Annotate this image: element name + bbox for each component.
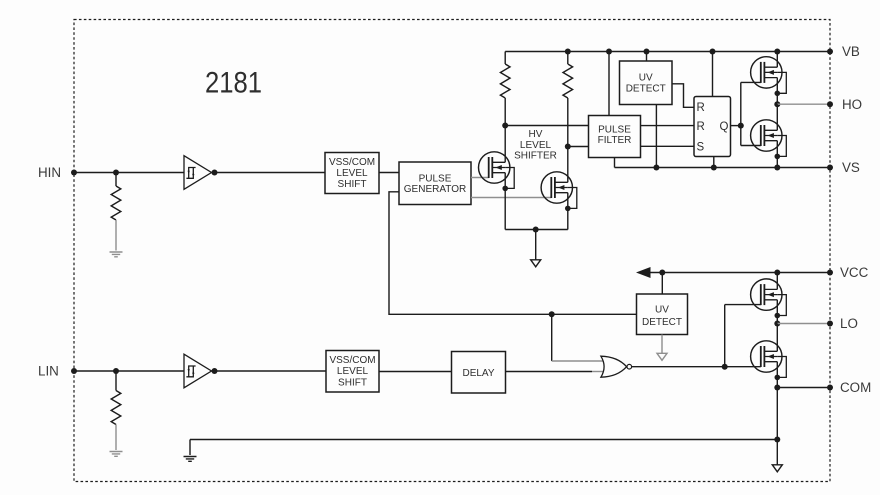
schmitt buffer LIN (184, 354, 212, 388)
svg-text:HO: HO (842, 97, 862, 112)
block VSS/COM LEVEL SHIFT (low side) (326, 351, 379, 393)
wire UV detect low to VSS arrow (661, 335, 663, 354)
block UV DETECT high side (620, 61, 673, 105)
wire latch Q output (731, 125, 741, 127)
node LO junction (774, 321, 780, 327)
node VCC pin dot (827, 270, 833, 276)
block VSS/COM LEVEL SHIFT (high side) (325, 153, 379, 194)
wire Q5 gate lead (725, 304, 761, 306)
wire net down to gate top input (551, 314, 553, 361)
transistor M2 level shift (541, 172, 577, 211)
node VB pin dot (827, 49, 833, 55)
wire from pulse generator down to low side (389, 192, 637, 314)
svg-text:VSS/COM: VSS/COM (329, 157, 375, 168)
svg-text:Q: Q (720, 121, 729, 133)
wire LO output (777, 323, 830, 325)
svg-text:LEVEL: LEVEL (337, 366, 369, 377)
ground under LIN resistor (110, 452, 123, 457)
wire VB tap to pulse filter (608, 52, 610, 116)
label HV LEVEL SHIFTER (514, 129, 557, 162)
wire M2 drain to pulse filter input S (568, 146, 589, 148)
wire COM output (777, 387, 830, 389)
wire resistor to ground (115, 220, 117, 251)
node HIN pin dot (71, 170, 77, 176)
wire Q5 source to LO (776, 300, 778, 324)
svg-text:DELAY: DELAY (462, 368, 494, 379)
wire resistor 2 to M2 drain (567, 98, 569, 182)
wire Q4 drain from HO (776, 104, 778, 130)
svg-text:DETECT: DETECT (642, 317, 682, 328)
svg-text:DETECT: DETECT (626, 83, 666, 94)
ground under HIN resistor (110, 252, 123, 257)
wire buffer out to level shift low (212, 370, 327, 372)
transistor Q3 HO high (751, 57, 787, 96)
resistor HIN pulldown (111, 186, 121, 220)
svg-text:S: S (697, 142, 705, 154)
wire Q6 drain from LO (776, 324, 778, 352)
wire VB stub to resistor 2 (567, 52, 569, 65)
gate NOR low side (601, 356, 632, 377)
svg-text:SHIFTER: SHIFTER (514, 151, 557, 162)
wire Q5 drain from VCC (776, 273, 778, 290)
wire VB rail (505, 51, 830, 53)
node LIN pin dot (71, 368, 77, 374)
svg-text:R: R (697, 102, 705, 114)
node bottom rail junction (774, 437, 780, 443)
node HO junction (774, 101, 780, 107)
block UV DETECT low side (637, 294, 688, 335)
latch R/S block (694, 97, 731, 157)
node LO pin dot (827, 321, 833, 327)
wire HIN input (74, 172, 184, 174)
wire VB stub to resistor 1 (504, 52, 506, 65)
node VB latch tap (710, 49, 716, 55)
wire pulse filter to latch R (641, 125, 695, 127)
wire VB tap to UV detect (646, 52, 648, 62)
transistor M1 level shift (479, 152, 515, 191)
node HO pin dot (827, 101, 833, 107)
node VCC UV tap junction (659, 270, 665, 276)
node buffer LIN output dot (212, 368, 218, 374)
node LIN junction (113, 368, 119, 374)
wire M2 source (567, 193, 569, 230)
node LO gate bus junction (722, 364, 728, 370)
wire M1 drain to pulse filter input R (505, 125, 588, 127)
transistor Q5 LO high (751, 279, 787, 318)
node Q4 source VS junction (774, 165, 780, 171)
wire Q6 source to COM and bottom rail (776, 362, 778, 440)
wire LO driver gate bus (724, 305, 726, 367)
wire buffer out to level shift (212, 172, 326, 174)
wire LIN input (74, 370, 184, 372)
svg-text:PULSE: PULSE (598, 124, 631, 135)
block DELAY (452, 352, 506, 394)
arrow VCC feed (filled) (636, 267, 651, 278)
node Q output junction (738, 123, 744, 129)
resistor level shift load 2 (563, 64, 573, 98)
node VB UV detect tap (644, 49, 650, 55)
node resistor 2 top junction (565, 49, 571, 55)
wire bottom rail to VSS ground (189, 440, 191, 456)
wire to COM arrow (535, 230, 537, 260)
wire LIN to pulldown resistor (115, 371, 117, 391)
svg-text:UV: UV (655, 305, 669, 316)
node low side net junction (549, 311, 555, 317)
node M2 drain junction (565, 144, 571, 150)
node HIN junction (113, 170, 119, 176)
schmitt buffer HIN (184, 156, 212, 190)
svg-text:2181: 2181 (205, 67, 262, 100)
block PULSE GENERATOR (399, 162, 471, 205)
wire HO output (777, 103, 830, 105)
node M1 drain junction (502, 123, 508, 129)
node Q3 drain VB junction (774, 49, 780, 55)
wire M1 source (504, 173, 506, 230)
wire pulse filter bottom to VS (614, 158, 616, 168)
wire level shift to pulse generator (379, 172, 399, 174)
svg-text:LIN: LIN (38, 364, 59, 379)
wire latch bottom to VS (713, 157, 715, 168)
block PULSE FILTER (589, 116, 641, 158)
svg-text:VB: VB (842, 44, 860, 59)
wire resistor 1 to M1 drain (504, 98, 506, 162)
wire Q3 gate lead (741, 81, 761, 83)
arrow UV detect to VSS (open, gray) (657, 353, 667, 360)
wire HIN to pulldown resistor (115, 173, 117, 187)
wire VSS bottom rail (190, 439, 777, 441)
transistor Q6 LO low (751, 341, 787, 380)
svg-text:VSS/COM: VSS/COM (329, 355, 375, 366)
svg-text:SHIFT: SHIFT (338, 179, 367, 190)
node source rail junction (533, 227, 539, 233)
wire pulse generator gate drive 1 (471, 177, 489, 179)
wire Q4 gate lead (741, 145, 761, 147)
svg-text:VS: VS (842, 160, 860, 175)
svg-text:LEVEL: LEVEL (520, 140, 552, 151)
wire source rail (505, 229, 568, 231)
arrow COM ground (open) (772, 465, 782, 472)
wire UV detect bottom to VS (655, 105, 657, 168)
arrow to COM (open) (531, 260, 541, 267)
node VS pin dot (827, 165, 833, 171)
svg-text:LEVEL: LEVEL (336, 168, 368, 179)
wire level shift to delay (379, 371, 452, 373)
svg-text:LO: LO (840, 316, 858, 331)
svg-text:PULSE: PULSE (419, 173, 452, 184)
wire UV detect output to latch R (672, 84, 694, 108)
wire delay to gate (506, 371, 593, 373)
svg-text:SHIFT: SHIFT (338, 377, 367, 388)
svg-text:GENERATOR: GENERATOR (404, 184, 466, 195)
wire to COM ground arrow (776, 440, 778, 465)
wire Q3 source to HO (776, 78, 778, 105)
node latch VS junction (711, 165, 717, 171)
svg-text:COM: COM (840, 380, 871, 395)
node UV detect VS junction (653, 165, 659, 171)
svg-text:FILTER: FILTER (598, 135, 632, 146)
svg-text:R: R (697, 121, 705, 133)
node buffer HIN output dot (212, 170, 218, 176)
node Q5 drain VCC junction (774, 270, 780, 276)
wire VB tap to latch (712, 52, 714, 97)
svg-text:UV: UV (639, 73, 653, 84)
ground VSS symbol (184, 457, 197, 462)
svg-text:VCC: VCC (840, 265, 869, 280)
wire pulse generator gate drive 2 (471, 197, 551, 199)
node COM junction (774, 385, 780, 391)
wire Q3 drain from VB (776, 52, 778, 68)
node COM pin dot (827, 385, 833, 391)
wire NOR output to LO driver gates (632, 366, 761, 368)
wire HO driver gate bus (740, 82, 742, 145)
wire VCC to UV detect low (661, 273, 663, 295)
wire resistor to ground (115, 425, 117, 451)
wire Q4 source to VS (776, 141, 778, 168)
resistor level shift load 1 (500, 64, 510, 98)
resistor LIN pulldown (111, 391, 121, 425)
wire gate input stub low (gray) (592, 371, 603, 373)
node VB pulse filter tap (606, 49, 612, 55)
svg-text:HIN: HIN (38, 165, 61, 180)
wire pulse filter to latch S (641, 145, 695, 147)
wire VS rail (615, 167, 831, 169)
wire VCC rail (644, 272, 830, 274)
svg-text:HV: HV (529, 129, 543, 140)
transistor Q4 HO low (751, 120, 787, 159)
wire gate input stub top (gray) (552, 360, 603, 362)
